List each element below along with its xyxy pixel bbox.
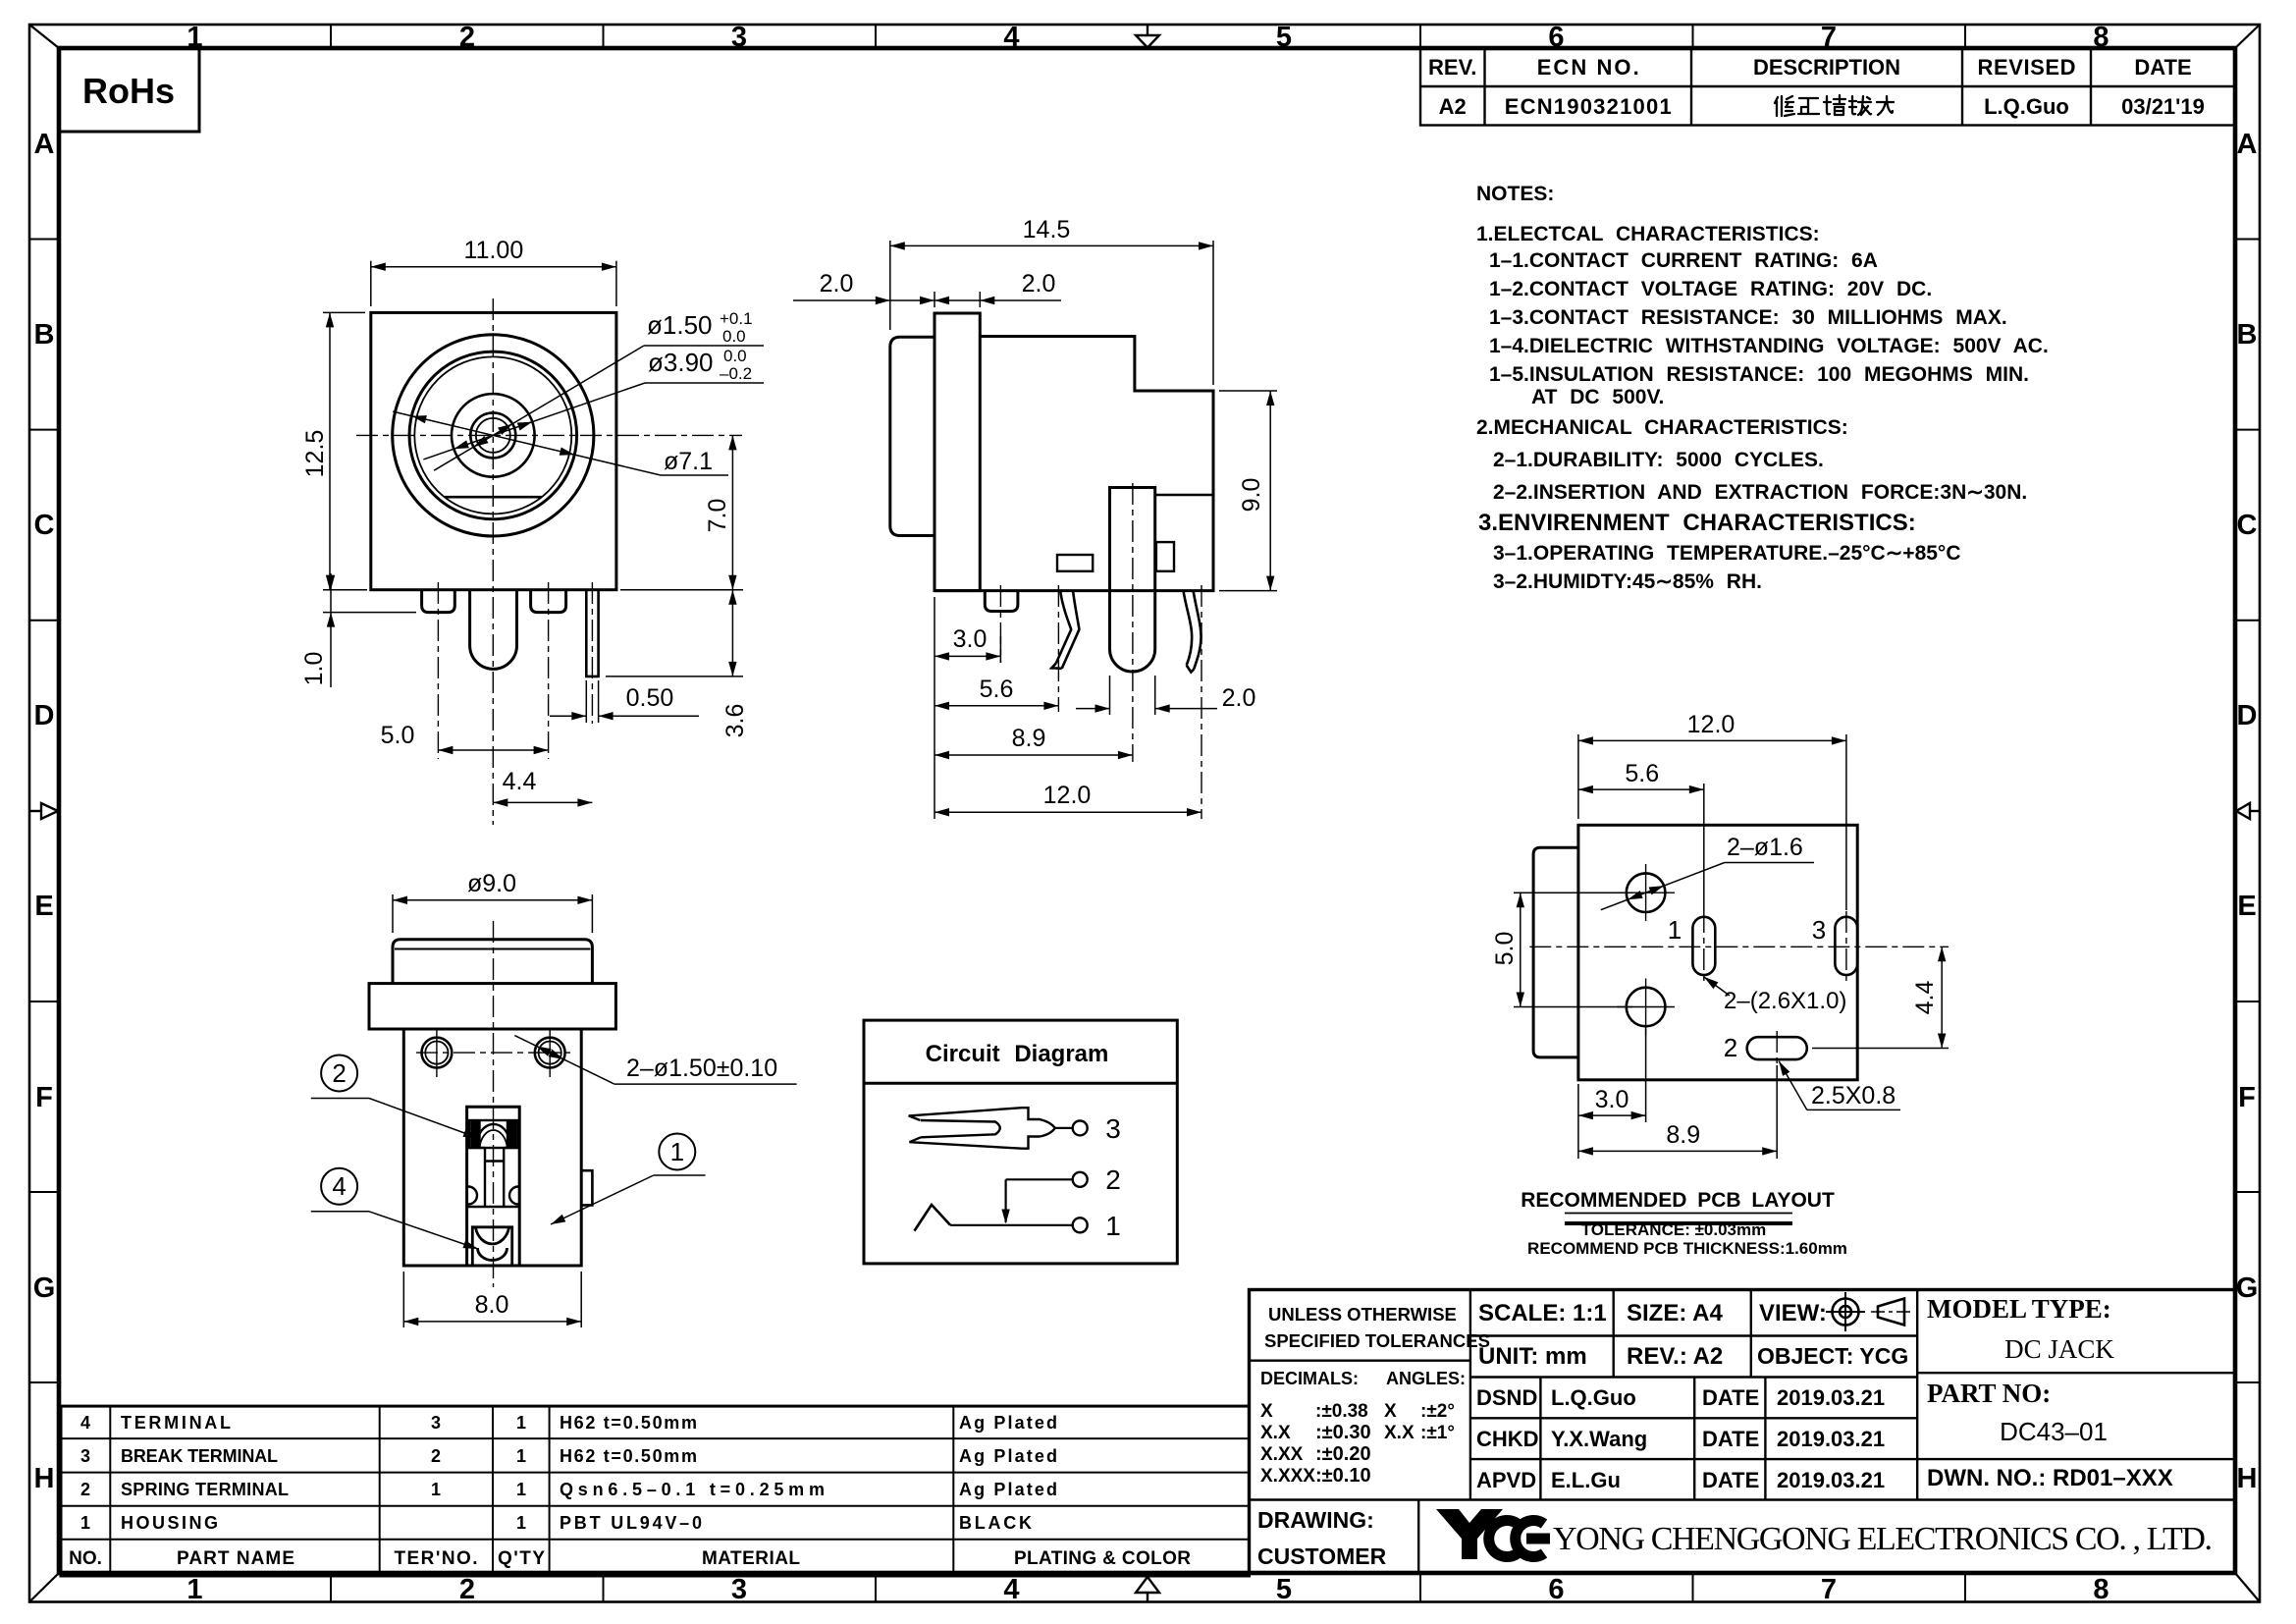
top centre mark — [1136, 25, 1159, 48]
wire pin 1 — [950, 1224, 1073, 1226]
BOTTOM VIEW of DC jack — [311, 870, 797, 1327]
svg-text:UNLESS OTHERWISE: UNLESS OTHERWISE — [1268, 1304, 1457, 1325]
svg-text:12.5: 12.5 — [301, 430, 329, 478]
svg-text:DECIMALS:: DECIMALS: — [1260, 1369, 1359, 1388]
svg-text:1.0: 1.0 — [300, 652, 328, 686]
svg-text:A2: A2 — [1439, 94, 1467, 119]
dimension 5.6 — [934, 663, 1058, 712]
svg-text:5.6: 5.6 — [980, 676, 1014, 703]
svg-text:NO.: NO. — [69, 1548, 102, 1569]
centrelines — [356, 298, 742, 825]
svg-text:0.0: 0.0 — [722, 327, 746, 346]
leader dia 7.1 — [393, 411, 728, 475]
model type cell — [1927, 1294, 2114, 1408]
pin 3 terminal circle — [1073, 1120, 1088, 1135]
RoHs box — [59, 48, 199, 132]
slot pad 1 — [1692, 917, 1715, 975]
svg-text:2019.03.21: 2019.03.21 — [1777, 1468, 1885, 1492]
centrelines — [1000, 483, 1201, 819]
svg-text:0.0: 0.0 — [723, 347, 747, 365]
svg-text:1–4.DIELECTRIC WITHSTANDING: 1–4.DIELECTRIC WITHSTANDING VOLTAGE: 500… — [1489, 335, 2049, 357]
svg-text:Q'TY: Q'TY — [498, 1548, 545, 1569]
leader 2-dia1.6 — [1601, 863, 1814, 910]
svg-text:H: H — [34, 1463, 55, 1494]
svg-text:12.0: 12.0 — [1687, 711, 1735, 738]
svg-text:1–1.CONTACT CURRENT RATING:: 1–1.CONTACT CURRENT RATING: 6A — [1489, 249, 1878, 272]
svg-text:REV.: A2: REV.: A2 — [1627, 1343, 1723, 1370]
spring terminal chord — [445, 496, 542, 499]
barrel circle dia 9.0 — [393, 335, 594, 536]
svg-text:2: 2 — [459, 22, 475, 53]
svg-text:2–ø1.6: 2–ø1.6 — [1727, 834, 1803, 861]
svg-text:YONG CHENGGONG ELECTRONICS: YONG CHENGGONG ELECTRONICS CO. , LTD. — [1553, 1521, 2213, 1557]
svg-text:B: B — [34, 319, 55, 351]
dimension dia 9.0 — [393, 894, 592, 933]
balloon 4 — [321, 1168, 357, 1205]
leader dia 1.50 — [434, 346, 764, 470]
slot pad 2 — [1747, 1037, 1807, 1059]
svg-text:6: 6 — [1548, 1574, 1564, 1605]
svg-text:ø3.90: ø3.90 — [648, 348, 714, 377]
svg-text:1: 1 — [187, 1574, 202, 1605]
dimension 12.0 — [1578, 734, 1846, 910]
svg-text:7.0: 7.0 — [704, 499, 731, 533]
svg-text:C: C — [34, 510, 55, 541]
svg-text:REV.: REV. — [1428, 55, 1476, 80]
svg-text:3: 3 — [1812, 915, 1826, 945]
svg-text::±1°: :±1° — [1420, 1423, 1455, 1443]
svg-text:BREAK TERMINAL: BREAK TERMINAL — [121, 1446, 278, 1466]
svg-text:1: 1 — [516, 1446, 526, 1466]
svg-text:H62 t=0.50mm: H62 t=0.50mm — [560, 1446, 697, 1466]
svg-text:2–2.INSERTION AND EXTRACTION: 2–2.INSERTION AND EXTRACTION FORCE:3N∼30… — [1493, 481, 2027, 504]
svg-text:Y.X.Wang: Y.X.Wang — [1551, 1427, 1647, 1451]
svg-text:Ag Plated: Ag Plated — [959, 1413, 1057, 1433]
centre pin — [1110, 488, 1155, 673]
svg-text:2–(2.6X1.0): 2–(2.6X1.0) — [1724, 988, 1846, 1014]
svg-text:1: 1 — [670, 1137, 684, 1166]
svg-text:H: H — [2237, 1463, 2258, 1494]
svg-text:DESCRIPTION: DESCRIPTION — [1753, 55, 1900, 80]
svg-text::±2°: :±2° — [1420, 1401, 1455, 1422]
svg-text:B: B — [2237, 319, 2258, 351]
dimension 5.0 — [1514, 893, 1632, 1006]
svg-text:5: 5 — [1276, 22, 1292, 53]
barrel — [890, 337, 934, 535]
svg-text:MATERIAL: MATERIAL — [702, 1548, 800, 1569]
company logo YCG — [1436, 1509, 1503, 1559]
pin channel — [467, 1148, 520, 1207]
svg-text:PBT UL94V–0: PBT UL94V–0 — [560, 1513, 702, 1533]
leader 2-(2.6X1.0) — [1704, 977, 1730, 996]
centre slot — [467, 1107, 520, 1266]
svg-text:1–5.INSULATION RESISTANCE: 1: 1–5.INSULATION RESISTANCE: 100 MEGOHMS M… — [1489, 363, 2029, 386]
svg-text:+0.1: +0.1 — [720, 309, 753, 328]
break contact arrow — [1004, 1179, 1006, 1222]
dimension 1.0 — [323, 573, 416, 687]
CIRCUIT DIAGRAM box — [864, 1020, 1177, 1264]
svg-text:X: X — [1260, 1401, 1273, 1422]
centrelines — [416, 921, 570, 1287]
svg-text:3: 3 — [80, 1446, 90, 1466]
svg-text:Circuit Diagram: Circuit Diagram — [926, 1041, 1109, 1067]
centre pin outer dia 1.50 — [470, 412, 515, 458]
svg-text:1.ELECTCAL CHARACTERISTICS:: 1.ELECTCAL CHARACTERISTICS: — [1476, 223, 1820, 245]
svg-text::±0.10: :±0.10 — [1315, 1465, 1371, 1487]
svg-text:CHKD: CHKD — [1476, 1427, 1539, 1451]
svg-text:HOUSING: HOUSING — [121, 1513, 218, 1533]
svg-text:DATE: DATE — [1702, 1468, 1759, 1492]
corner diagonal BL — [29, 1573, 59, 1602]
svg-text:D: D — [2237, 700, 2258, 731]
svg-text:X.X: X.X — [1260, 1423, 1291, 1443]
dimension 2.0 flange dims — [793, 292, 1061, 307]
svg-text:12.0: 12.0 — [1043, 782, 1092, 809]
title block — [1250, 1290, 2236, 1574]
centre pin fork symbol — [909, 1108, 1055, 1149]
spring terminal 2 — [469, 1120, 517, 1148]
zone numbers top — [187, 22, 2109, 53]
left pin — [422, 590, 455, 613]
svg-text:RoHs: RoHs — [82, 71, 175, 111]
wire pin 2 — [1006, 1178, 1073, 1180]
svg-text:PLATING & COLOR: PLATING & COLOR — [1014, 1548, 1191, 1569]
svg-text:1: 1 — [80, 1513, 90, 1533]
svg-text:PART NO:: PART NO: — [1927, 1379, 2051, 1408]
bore ring outer — [409, 352, 577, 519]
pin 1 terminal circle — [1073, 1218, 1088, 1232]
balloon 2 — [321, 1056, 357, 1092]
svg-text:3: 3 — [431, 1413, 441, 1433]
dimension 12.0 — [934, 761, 1201, 819]
centre pin inner — [476, 418, 510, 453]
dimension 14.5 — [890, 241, 1213, 385]
svg-text:X: X — [1384, 1401, 1397, 1422]
mounting hole right — [535, 1038, 565, 1068]
mounting hole left — [422, 1038, 453, 1068]
svg-text:2019.03.21: 2019.03.21 — [1777, 1385, 1885, 1410]
svg-text:CUSTOMER: CUSTOMER — [1257, 1543, 1387, 1569]
zone numbers bottom — [187, 1574, 2109, 1605]
svg-text:MODEL TYPE:: MODEL TYPE: — [1927, 1294, 2111, 1324]
left centre mark — [29, 803, 58, 819]
corner diagonal TL — [29, 25, 59, 48]
svg-text:4.4: 4.4 — [1911, 981, 1939, 1015]
right bump — [581, 1170, 592, 1205]
svg-text::±0.20: :±0.20 — [1315, 1443, 1371, 1465]
svg-text:2: 2 — [431, 1446, 441, 1466]
revision table — [1420, 48, 2235, 126]
svg-text:11.00: 11.00 — [464, 237, 524, 264]
dimension 4.4 — [1812, 947, 1949, 1048]
svg-text:DATE: DATE — [2134, 55, 2191, 80]
svg-text:3.ENVIRENMENT CHARACTERISTICS: 3.ENVIRENMENT CHARACTERISTICS: — [1478, 510, 1916, 536]
svg-text:–0.2: –0.2 — [720, 364, 752, 383]
flange — [369, 984, 615, 1029]
svg-text:2.5X0.8: 2.5X0.8 — [1811, 1082, 1896, 1110]
left bent leg — [1051, 591, 1079, 669]
slot pad 3 — [1835, 917, 1857, 975]
svg-text:1–2.CONTACT VOLTAGE RATING:: 1–2.CONTACT VOLTAGE RATING: 20V DC. — [1489, 278, 1932, 300]
dimension 8.9 — [934, 712, 1133, 761]
dimension 9.0 — [1219, 391, 1277, 591]
svg-text:RECOMMEND PCB THICKNESS:1.60: RECOMMEND PCB THICKNESS:1.60mm — [1527, 1239, 1847, 1258]
centre pin — [470, 590, 517, 670]
break contact spring — [915, 1205, 951, 1231]
right pin — [531, 590, 566, 613]
dimension 8.9 — [1578, 1065, 1777, 1159]
right band dividers — [2235, 240, 2260, 1383]
svg-text:D: D — [34, 700, 55, 731]
svg-text:REVISED: REVISED — [1978, 55, 2076, 80]
svg-text:BLACK: BLACK — [959, 1513, 1032, 1533]
pin 2 terminal circle — [1073, 1172, 1088, 1187]
svg-text:L.Q.Guo: L.Q.Guo — [1984, 94, 2069, 119]
bore ring inner dia 7.1 — [414, 356, 571, 514]
svg-text:Ag Plated: Ag Plated — [959, 1446, 1057, 1466]
svg-text:E: E — [2237, 891, 2256, 922]
svg-text:1: 1 — [516, 1513, 526, 1533]
side terminal thin pin — [586, 590, 598, 677]
dimension 12.5 — [323, 312, 365, 589]
svg-text:Ag Plated: Ag Plated — [959, 1480, 1057, 1499]
dimension 11.00 — [371, 261, 616, 306]
svg-text:X.X: X.X — [1384, 1423, 1415, 1443]
svg-text:3–2.HUMIDTY:45∼85% RH.: 3–2.HUMIDTY:45∼85% RH. — [1493, 570, 1762, 593]
bottom band dividers — [331, 1573, 1965, 1602]
svg-text:AT DC 500V.: AT DC 500V. — [1531, 386, 1664, 408]
svg-text:3–1.OPERATING TEMPERATURE.–25: 3–1.OPERATING TEMPERATURE.–25°C∼+85°C — [1493, 542, 1961, 565]
svg-text:DATE: DATE — [1702, 1427, 1759, 1451]
svg-text:4: 4 — [332, 1171, 346, 1201]
svg-text:G: G — [33, 1272, 56, 1304]
svg-text:0.50: 0.50 — [626, 684, 674, 712]
svg-text:ANGLES:: ANGLES: — [1386, 1369, 1466, 1388]
svg-text:DATE: DATE — [1702, 1385, 1759, 1410]
pcb body outline — [1578, 825, 1857, 1080]
svg-text:2019.03.21: 2019.03.21 — [1777, 1427, 1885, 1451]
svg-text:4: 4 — [1003, 22, 1019, 53]
FRONT VIEW of DC jack — [300, 237, 764, 825]
svg-text:VIEW:: VIEW: — [1759, 1300, 1827, 1326]
svg-text:RECOMMENDED PCB LAYOUT: RECOMMENDED PCB LAYOUT — [1521, 1189, 1835, 1212]
svg-text:X.XXX: X.XXX — [1260, 1466, 1315, 1487]
hole crosshairs — [437, 1028, 550, 1077]
dimension 7.0 — [731, 435, 733, 589]
svg-text:F: F — [35, 1082, 53, 1113]
svg-text:8: 8 — [2093, 1574, 2109, 1605]
svg-text:4: 4 — [80, 1413, 90, 1433]
flange — [934, 313, 980, 591]
svg-text:14.5: 14.5 — [1023, 216, 1071, 244]
svg-text:2: 2 — [80, 1480, 90, 1499]
dimension 4.4 — [493, 801, 592, 803]
svg-text:SIZE: A4: SIZE: A4 — [1627, 1300, 1723, 1326]
svg-text:E.L.Gu: E.L.Gu — [1551, 1468, 1621, 1492]
hole 2-dia1.6 lower — [1627, 988, 1666, 1027]
svg-text:1: 1 — [1668, 915, 1682, 945]
svg-text:8.9: 8.9 — [1012, 725, 1046, 752]
description CJK text (stroke glyphs) — [1775, 95, 1894, 116]
barrel top — [393, 940, 592, 984]
svg-text:H62 t=0.50mm: H62 t=0.50mm — [560, 1413, 697, 1433]
hole crosshairs — [1617, 864, 1675, 1036]
centrelines — [1529, 911, 1949, 1065]
svg-text:DC JACK: DC JACK — [2004, 1334, 2114, 1364]
wire fork to pin 3 — [1055, 1127, 1073, 1129]
svg-text:2: 2 — [332, 1058, 346, 1088]
balloon 1 — [659, 1134, 695, 1170]
svg-text:8.0: 8.0 — [475, 1291, 509, 1319]
svg-text:2.0: 2.0 — [820, 270, 854, 298]
svg-text:8.9: 8.9 — [1666, 1121, 1700, 1149]
svg-text:X.XX: X.XX — [1260, 1444, 1304, 1465]
internal step line — [1155, 494, 1213, 496]
view symbols — [1826, 1292, 1912, 1331]
svg-text:TER'NO.: TER'NO. — [395, 1548, 478, 1569]
svg-text:5.6: 5.6 — [1625, 760, 1659, 787]
left band dividers — [29, 240, 59, 1383]
dimension 3.0 — [1578, 1029, 1646, 1159]
window detail — [1057, 555, 1093, 571]
svg-text:2.0: 2.0 — [1022, 270, 1056, 298]
svg-text:APVD: APVD — [1476, 1468, 1536, 1492]
svg-text:G: G — [2236, 1272, 2259, 1304]
dimension 3.0 — [934, 597, 1000, 663]
svg-text:2: 2 — [1105, 1164, 1121, 1195]
svg-text:ø1.50: ø1.50 — [647, 310, 713, 340]
svg-text:5.0: 5.0 — [381, 722, 415, 749]
zone letters left — [33, 129, 56, 1494]
leader 2.5X0.8 — [1779, 1061, 1900, 1110]
small pin — [985, 591, 1018, 612]
svg-text:3: 3 — [731, 22, 747, 53]
svg-text:OBJECT: YCG: OBJECT: YCG — [1757, 1343, 1908, 1369]
right bent leg — [1184, 591, 1201, 673]
svg-text:ø7.1: ø7.1 — [664, 448, 713, 475]
leader dia 3.90 — [423, 383, 764, 460]
corner diagonal BR — [2235, 1573, 2260, 1602]
svg-text:5.0: 5.0 — [1491, 932, 1519, 966]
scale cells text — [1476, 1300, 1908, 1492]
top band dividers — [331, 25, 1965, 48]
svg-text:2–ø1.50±0.10: 2–ø1.50±0.10 — [626, 1055, 777, 1082]
dimension 8.0 — [403, 1272, 581, 1327]
svg-text:E: E — [34, 891, 53, 922]
svg-text:3.0: 3.0 — [1595, 1086, 1629, 1113]
body — [403, 1029, 581, 1266]
dimension 2.0 pin dia — [1076, 676, 1217, 715]
terminal 4 — [472, 1227, 511, 1266]
svg-text:1–3.CONTACT RESISTANCE: 30: 1–3.CONTACT RESISTANCE: 30 MILLIOHMS MAX… — [1489, 306, 2007, 329]
svg-text:9.0: 9.0 — [1238, 478, 1265, 513]
svg-text:3.0: 3.0 — [953, 625, 988, 653]
body outline — [934, 337, 1213, 591]
svg-text:TOLERANCE: ±0.03mm: TOLERANCE: ±0.03mm — [1581, 1220, 1767, 1239]
RECOMMENDED PCB LAYOUT view — [1491, 711, 1949, 1258]
svg-text:ECN190321001: ECN190321001 — [1505, 94, 1672, 119]
svg-text:1: 1 — [1105, 1211, 1121, 1241]
svg-text:2.MECHANICAL CHARACTERISTICS:: 2.MECHANICAL CHARACTERISTICS: — [1476, 416, 1848, 439]
right centre mark — [2236, 803, 2260, 819]
svg-text:7: 7 — [1821, 1574, 1837, 1605]
svg-text:03/21'19: 03/21'19 — [2121, 94, 2205, 119]
svg-text:1: 1 — [516, 1413, 526, 1433]
svg-text:ø9.0: ø9.0 — [467, 870, 516, 897]
housing square outline — [371, 312, 616, 589]
svg-text:2.0: 2.0 — [1222, 684, 1256, 712]
svg-text:PART NAME: PART NAME — [177, 1548, 294, 1569]
svg-text:DRAWING:: DRAWING: — [1257, 1507, 1374, 1533]
svg-text:3: 3 — [1105, 1113, 1121, 1144]
svg-text:DWN. NO.: RD01–XXX: DWN. NO.: RD01–XXX — [1927, 1465, 2173, 1491]
svg-text:UNIT: mm: UNIT: mm — [1478, 1343, 1587, 1370]
svg-text:4: 4 — [1003, 1574, 1019, 1605]
svg-text:4.4: 4.4 — [503, 768, 537, 795]
svg-text:A: A — [2237, 129, 2258, 160]
parts list table — [61, 1406, 1250, 1576]
side terminal slot detail — [1156, 542, 1174, 571]
left tab — [1533, 847, 1578, 1057]
svg-text:3: 3 — [731, 1574, 747, 1605]
svg-text:3.6: 3.6 — [721, 704, 749, 738]
svg-text:2: 2 — [459, 1574, 475, 1605]
dimension 5.0 — [438, 749, 548, 751]
zone letters right — [2236, 129, 2259, 1494]
svg-text:1: 1 — [431, 1480, 441, 1499]
bottom centre mark — [1136, 1577, 1159, 1602]
svg-text:Qsn6.5–0.1 t=0.25mm: Qsn6.5–0.1 t=0.25mm — [560, 1480, 825, 1499]
svg-text::±0.38: :±0.38 — [1315, 1401, 1368, 1422]
svg-text:L.Q.Guo: L.Q.Guo — [1551, 1385, 1636, 1410]
tolerance box text — [1257, 1304, 1490, 1569]
svg-text:1: 1 — [516, 1480, 526, 1499]
svg-text:F: F — [2238, 1082, 2256, 1113]
svg-text:ECN NO.: ECN NO. — [1537, 55, 1639, 80]
dimension 5.6 — [1578, 784, 1704, 911]
svg-text:NOTES:: NOTES: — [1476, 183, 1554, 205]
notes text — [1476, 183, 2049, 593]
svg-text:SPECIFIED TOLERANCES: SPECIFIED TOLERANCES — [1264, 1330, 1490, 1351]
svg-text:A: A — [34, 129, 55, 160]
svg-text:C: C — [2237, 510, 2258, 541]
sleeve circle dia 3.90 — [452, 394, 535, 477]
svg-text:5: 5 — [1276, 1574, 1292, 1605]
svg-text:DSND: DSND — [1476, 1385, 1537, 1410]
corner diagonal TR — [2235, 25, 2260, 48]
svg-text:DC43–01: DC43–01 — [2000, 1417, 2108, 1446]
dimension 3.6 — [606, 590, 743, 677]
dimension 0.50 — [550, 680, 699, 723]
svg-text:SCALE: 1:1: SCALE: 1:1 — [1478, 1300, 1607, 1326]
svg-text:TERMINAL: TERMINAL — [121, 1413, 231, 1433]
svg-text::±0.30: :±0.30 — [1315, 1422, 1371, 1443]
svg-text:2–1.DURABILITY: 5000 CYCLES.: 2–1.DURABILITY: 5000 CYCLES. — [1493, 449, 1824, 471]
SIDE VIEW of DC jack — [793, 216, 1277, 819]
leader 2-dia1.50 — [514, 1036, 796, 1085]
hole 2-dia1.6 upper — [1627, 873, 1666, 912]
svg-text:SPRING TERMINAL: SPRING TERMINAL — [121, 1480, 289, 1499]
svg-text:2: 2 — [1724, 1033, 1737, 1062]
